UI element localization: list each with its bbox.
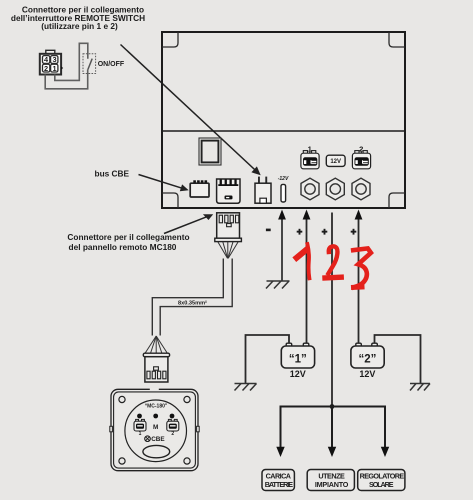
svg-text:(utilizzare pin 1 e 2): (utilizzare pin 1 e 2) bbox=[41, 21, 118, 31]
J1 body bbox=[190, 183, 209, 197]
terminal nut 2 bbox=[326, 178, 344, 200]
tick under label 1 bbox=[309, 152, 311, 154]
battery 2 terminals bbox=[356, 343, 362, 348]
panel battery icon 1 bbox=[134, 419, 146, 431]
J1 teeth bbox=[193, 180, 196, 183]
LED 1 bbox=[137, 414, 142, 419]
svg-text:12V: 12V bbox=[330, 159, 341, 165]
P1 flange bbox=[215, 238, 242, 241]
svg-text:12V: 12V bbox=[290, 369, 306, 379]
wire output2 to loads bus bbox=[331, 213, 333, 407]
switch S1 lever bbox=[88, 59, 92, 70]
panel button oval bbox=[143, 445, 170, 457]
svg-text:del pannello remoto MC180: del pannello remoto MC180 bbox=[69, 242, 177, 252]
P2 slots bbox=[147, 371, 150, 379]
P2 body bbox=[145, 357, 168, 382]
panel top tab bbox=[150, 388, 159, 391]
svg-text:BATTERIE: BATTERIE bbox=[265, 480, 294, 489]
pin 2 cell bbox=[43, 64, 50, 72]
LED 2 bbox=[170, 414, 175, 419]
junction node bbox=[330, 404, 335, 409]
arrow to MC180 plug bbox=[164, 217, 206, 233]
battery 1 bbox=[281, 343, 314, 379]
screw top-left bbox=[119, 396, 125, 402]
J2 pins bbox=[220, 179, 222, 184]
svg-text:12V: 12V bbox=[359, 369, 375, 379]
battery 1 terminals bbox=[286, 343, 292, 348]
panel side notch left bbox=[110, 426, 113, 432]
bus CBE connector J1 bbox=[190, 180, 209, 197]
12V plate on unit bbox=[326, 155, 345, 166]
wire pin2 to switch bottom bbox=[45, 70, 87, 89]
svg-text:Connettore per il collegamento: Connettore per il collegamento bbox=[67, 232, 189, 242]
MC180 plug P1 (at unit) bbox=[215, 213, 242, 242]
svg-text:8x0.35mm²: 8x0.35mm² bbox=[178, 299, 207, 306]
MC180 panel connector J2 on unit bbox=[217, 179, 240, 203]
red handwritten 3 bbox=[353, 248, 371, 287]
ground wire (negative) bbox=[281, 216, 283, 281]
load box REGOLATORE SOLARE bbox=[358, 470, 405, 491]
svg-text:bus CBE: bus CBE bbox=[95, 169, 130, 179]
P1 slots bbox=[219, 215, 222, 223]
label MC180 panel connector note bbox=[67, 232, 189, 252]
P1 body bbox=[217, 213, 240, 238]
svg-text:M: M bbox=[153, 424, 158, 431]
switch S1 (dashed box) bbox=[83, 54, 96, 74]
wire to carica batterie bbox=[280, 406, 282, 449]
MC180 remote panel bbox=[110, 388, 199, 471]
wire pin1 to switch top bbox=[55, 43, 88, 80]
remote switch connector J3 on unit bbox=[255, 177, 271, 204]
screw bottom-left bbox=[119, 458, 125, 464]
panel side notch right bbox=[197, 426, 200, 432]
connector X1 body bbox=[40, 54, 61, 75]
label minus bbox=[266, 229, 271, 232]
pin numbers 4 3 2 1 bbox=[44, 55, 57, 73]
arrow from note to remote connector on unit bbox=[121, 45, 257, 172]
unit corner notch top-right bbox=[389, 32, 405, 47]
svg-text:SOLARE: SOLARE bbox=[369, 480, 394, 489]
battery icon B1 on unit bbox=[301, 151, 319, 169]
red handwritten 1 bbox=[297, 244, 310, 278]
LED M bbox=[153, 414, 158, 419]
panel inner frame bbox=[114, 392, 196, 468]
svg-text:“2”: “2” bbox=[358, 354, 376, 366]
connector X1 (REMOTE SWITCH 4-pin plug) bbox=[40, 50, 61, 74]
unit corner notch bottom-left bbox=[162, 193, 178, 208]
connector X1 tab bbox=[46, 50, 55, 54]
ground symbol G1 bbox=[266, 281, 290, 289]
svg-text:2: 2 bbox=[44, 64, 48, 73]
wire output3 to battery 2 bbox=[358, 216, 360, 344]
battery 2 body bbox=[351, 346, 384, 368]
label: remote switch connector note bbox=[11, 5, 145, 31]
pin 4 cell bbox=[43, 56, 50, 64]
svg-text:2: 2 bbox=[171, 431, 174, 437]
pin 3 cell bbox=[51, 56, 58, 64]
charger unit CB516 outline bbox=[162, 32, 405, 208]
pin 1 cell bbox=[51, 64, 58, 72]
battery icon B2 on unit bbox=[352, 151, 370, 169]
svg-text:-12V: -12V bbox=[278, 176, 289, 182]
J3 body bbox=[255, 183, 271, 203]
unit corner notch top-left bbox=[162, 32, 178, 47]
svg-text:ON/OFF: ON/OFF bbox=[98, 61, 125, 68]
load box CARICA BATTERIE bbox=[262, 470, 294, 491]
MC180 socket P2 bbox=[143, 353, 169, 382]
J3 pins bbox=[258, 177, 260, 184]
ground symbol G3 bbox=[410, 384, 430, 391]
svg-text:CBE: CBE bbox=[151, 436, 165, 443]
J2 body bbox=[217, 179, 240, 203]
screw bottom-right bbox=[184, 458, 190, 464]
wire output1 to battery 1 bbox=[306, 216, 308, 344]
J2 key slot bbox=[225, 196, 233, 200]
wire fan at plug bbox=[218, 242, 238, 258]
cable 8x0.35 band bbox=[152, 259, 223, 336]
svg-text:1: 1 bbox=[139, 431, 142, 437]
label plus 3 bbox=[351, 229, 357, 235]
ground symbol G2 bbox=[235, 384, 257, 391]
battery 1 body bbox=[281, 346, 314, 368]
wire to regolatore solare bbox=[384, 406, 386, 449]
label plus 2 bbox=[322, 229, 328, 235]
svg-text:“MC-180”: “MC-180” bbox=[145, 404, 168, 410]
tick under label 2 bbox=[360, 152, 362, 154]
panel outer frame bbox=[111, 389, 198, 470]
J3 key notch bbox=[260, 198, 267, 203]
load box UTENZE IMPIANTO bbox=[307, 470, 354, 491]
arrow to bus CBE connector bbox=[139, 175, 183, 189]
P1 key bbox=[227, 224, 232, 227]
panel face circle bbox=[125, 400, 187, 462]
battery 1 negative wire to ground bbox=[246, 335, 290, 384]
-12V terminal bar bbox=[281, 184, 286, 202]
P2 flange bbox=[143, 353, 169, 357]
unit divider line bbox=[162, 130, 405, 132]
wire to utenze impianto bbox=[331, 407, 333, 449]
svg-text:IMPIANTO: IMPIANTO bbox=[315, 480, 349, 489]
svg-text:“1”: “1” bbox=[289, 354, 307, 366]
loads bus bbox=[281, 406, 386, 408]
screw top-right bbox=[184, 396, 190, 402]
terminal nut 3 bbox=[352, 178, 370, 200]
fuse holder window bbox=[199, 138, 221, 165]
panel battery icon 2 bbox=[167, 419, 179, 431]
CBE logo bbox=[145, 436, 151, 442]
label plus 1 bbox=[297, 229, 303, 235]
red handwritten 2 bbox=[325, 246, 341, 278]
unit corner notch bottom-right bbox=[389, 193, 405, 208]
battery 2 positive wire to ground bbox=[375, 335, 421, 384]
J2 pin row band bbox=[218, 184, 238, 186]
terminal nut 1 bbox=[301, 178, 319, 200]
battery 2 bbox=[351, 343, 384, 379]
wire fan at socket bbox=[145, 336, 167, 353]
connector X1 latch bbox=[61, 66, 63, 69]
svg-text:1: 1 bbox=[52, 64, 56, 73]
P2 key bbox=[154, 367, 159, 370]
